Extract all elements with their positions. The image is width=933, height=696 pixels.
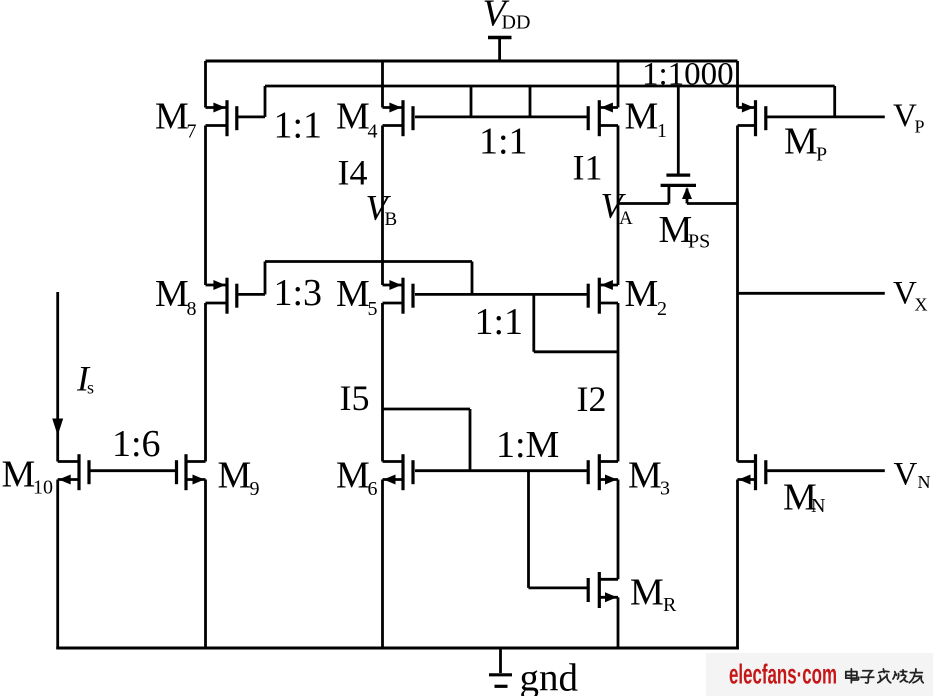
svg-text:V: V	[893, 98, 917, 134]
svg-text:X: X	[915, 295, 928, 315]
svg-text:I1: I1	[573, 148, 603, 188]
svg-text:3: 3	[660, 478, 670, 500]
svg-text:9: 9	[250, 478, 260, 500]
svg-text:1: 1	[657, 120, 667, 142]
svg-text:N: N	[811, 495, 825, 517]
svg-text:R: R	[663, 594, 677, 616]
svg-text:4: 4	[368, 121, 378, 143]
svg-text:M: M	[155, 96, 189, 138]
svg-text:2: 2	[657, 298, 667, 320]
svg-text:M: M	[218, 455, 252, 497]
svg-text:7: 7	[187, 121, 197, 143]
svg-text:M: M	[625, 273, 659, 315]
svg-text:M: M	[784, 121, 818, 163]
svg-text:V: V	[894, 457, 918, 493]
svg-text:N: N	[918, 472, 931, 492]
svg-text:5: 5	[368, 298, 378, 320]
svg-text:DD: DD	[502, 12, 531, 34]
svg-text:P: P	[915, 117, 925, 137]
svg-text:1:1: 1:1	[475, 301, 524, 343]
svg-text:B: B	[385, 209, 398, 230]
svg-text:M: M	[625, 96, 659, 138]
svg-text:1:3: 1:3	[274, 272, 323, 314]
svg-text:A: A	[619, 208, 633, 229]
svg-text:I2: I2	[577, 379, 607, 419]
svg-text:6: 6	[368, 478, 378, 500]
svg-text:1:1: 1:1	[274, 105, 323, 147]
svg-text:1:6: 1:6	[112, 423, 161, 465]
svg-text:M: M	[155, 273, 189, 315]
svg-text:PS: PS	[688, 231, 710, 253]
svg-text:M: M	[336, 96, 370, 138]
svg-text:1:1: 1:1	[479, 121, 528, 163]
svg-text:M: M	[628, 455, 662, 497]
svg-text:M: M	[336, 273, 370, 315]
svg-text:P: P	[816, 144, 827, 166]
svg-text:I4: I4	[338, 153, 368, 193]
svg-text:1:1000: 1:1000	[642, 57, 734, 93]
svg-text:gnd: gnd	[520, 657, 579, 696]
svg-text:8: 8	[187, 298, 197, 320]
svg-text:1:M: 1:M	[496, 424, 559, 466]
svg-text:s: s	[87, 378, 94, 398]
svg-text:M: M	[336, 455, 370, 497]
svg-text:10: 10	[33, 477, 53, 499]
svg-text:elecfans·com: elecfans·com	[729, 659, 837, 690]
svg-text:M: M	[630, 572, 664, 614]
svg-text:V: V	[893, 276, 917, 312]
svg-text:M: M	[2, 454, 36, 496]
svg-text:I5: I5	[340, 378, 370, 418]
